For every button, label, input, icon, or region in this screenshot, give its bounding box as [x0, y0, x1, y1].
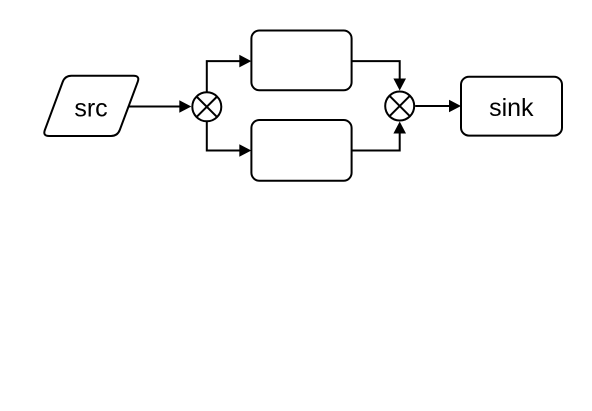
wire src to gateway G1: [129, 100, 192, 113]
svg-text:sink: sink: [489, 94, 534, 122]
wire G1 to box B2 (down branch): [207, 121, 252, 157]
gateway G2 (crossed circle): [385, 92, 414, 121]
wire B1 to gateway G2: [352, 61, 406, 90]
wire G2 to sink: [415, 100, 461, 113]
box B2 (bottom rounded rectangle): [251, 120, 351, 181]
node sink (rounded rectangle): [461, 77, 562, 136]
wire G1 to box B1 (up branch): [207, 55, 252, 93]
box B1 (top rounded rectangle): [251, 31, 351, 91]
svg-text:src: src: [74, 94, 107, 122]
gateway G1 (crossed circle): [192, 92, 221, 121]
wire B2 to gateway G2: [352, 122, 406, 151]
node src (parallelogram): [44, 76, 138, 136]
